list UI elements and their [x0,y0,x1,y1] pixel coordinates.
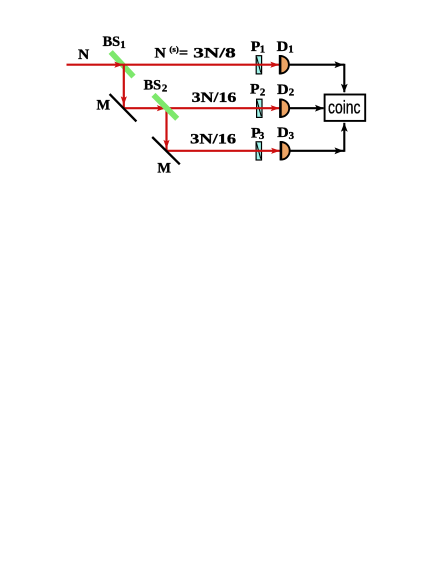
svg-text:2: 2 [162,83,167,95]
svg-text:1: 1 [288,43,293,55]
svg-text:3: 3 [259,130,265,142]
svg-text:3N/16: 3N/16 [190,132,236,148]
svg-text:=: = [179,46,188,62]
svg-text:D: D [277,39,289,55]
svg-text:BS: BS [144,77,162,93]
svg-text:N: N [78,47,90,63]
svg-text:1: 1 [260,44,265,56]
svg-text:2: 2 [260,86,265,98]
svg-text:coinc: coinc [328,96,361,117]
svg-text:P: P [250,82,260,98]
svg-text:2: 2 [289,87,294,99]
svg-text:D: D [277,125,289,141]
svg-text:3N/8: 3N/8 [193,46,235,62]
svg-text:N: N [155,46,167,62]
svg-text:3N/16: 3N/16 [192,90,237,106]
svg-text:1: 1 [120,39,125,51]
svg-text:(s): (s) [169,45,179,54]
svg-text:BS: BS [103,34,121,50]
svg-text:3: 3 [289,130,295,142]
svg-text:M: M [97,98,111,114]
svg-text:D: D [277,82,289,98]
svg-text:M: M [157,160,171,176]
